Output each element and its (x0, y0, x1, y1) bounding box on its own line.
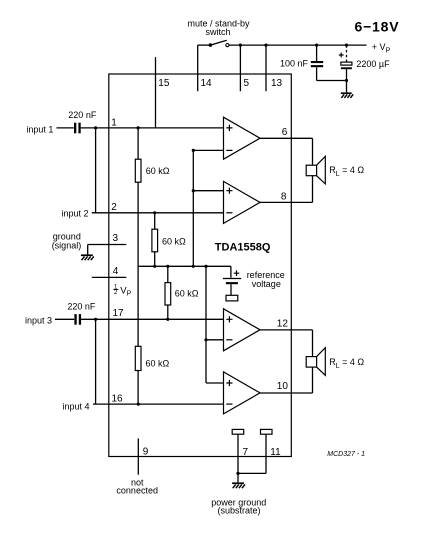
svg-text:8: 8 (281, 191, 287, 202)
svg-text:60 kΩ: 60 kΩ (146, 166, 170, 176)
svg-text:60 kΩ: 60 kΩ (162, 237, 186, 247)
svg-text:2: 2 (111, 202, 117, 213)
svg-text:TDA1558Q: TDA1558Q (215, 241, 271, 253)
svg-text:100 nF: 100 nF (280, 58, 309, 68)
svg-text:11: 11 (270, 447, 281, 458)
svg-text:input 3: input 3 (25, 316, 52, 326)
svg-text:15: 15 (158, 78, 170, 89)
svg-text:6−18V: 6−18V (355, 19, 400, 35)
svg-text:1: 1 (111, 118, 117, 129)
svg-text:(substrate): (substrate) (217, 506, 260, 516)
svg-text:14: 14 (201, 78, 213, 89)
svg-text:10: 10 (277, 381, 289, 392)
svg-text:17: 17 (113, 308, 125, 319)
svg-text:7: 7 (243, 447, 249, 458)
svg-text:connected: connected (116, 486, 158, 496)
svg-text:3: 3 (113, 233, 119, 244)
svg-text:4: 4 (113, 266, 119, 277)
svg-text:220 nF: 220 nF (67, 301, 96, 311)
svg-text:5: 5 (244, 78, 250, 89)
svg-text:16: 16 (112, 394, 124, 405)
svg-text:input 1: input 1 (26, 125, 53, 135)
svg-text:switch: switch (205, 27, 230, 37)
svg-text:60 kΩ: 60 kΩ (146, 359, 170, 369)
svg-text:MCD327 - 1: MCD327 - 1 (327, 451, 365, 458)
svg-text:(signal): (signal) (52, 241, 82, 251)
svg-text:220 nF: 220 nF (68, 110, 97, 120)
svg-text:12: 12 (277, 319, 289, 330)
svg-text:voltage: voltage (252, 279, 281, 289)
svg-text:2200 µF: 2200 µF (356, 59, 390, 69)
svg-text:input 2: input 2 (62, 208, 89, 218)
svg-text:60 kΩ: 60 kΩ (175, 289, 199, 299)
svg-text:6: 6 (282, 127, 288, 138)
svg-text:13: 13 (271, 78, 283, 89)
svg-text:9: 9 (143, 446, 149, 457)
svg-text:input 4: input 4 (63, 402, 90, 412)
